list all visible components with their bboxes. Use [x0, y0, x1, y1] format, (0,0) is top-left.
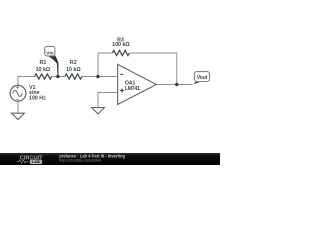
- flag Vout box: [194, 72, 209, 82]
- resistor R3: [112, 50, 129, 55]
- wire R2 to op-amp minus input: [82, 76, 118, 78]
- wire V1 top to R1: [18, 77, 35, 86]
- junction node output/feedback: [175, 83, 178, 86]
- svg-text:http:​//circuitlab.com/c62k8: http:​//circuitlab.com/c62k8: [59, 158, 101, 162]
- svg-text:10 kΩ: 10 kΩ: [36, 67, 51, 73]
- wire feedback top right: [129, 53, 176, 85]
- wire V1 bottom to ground: [17, 101, 19, 113]
- wire R1 to R2: [52, 76, 65, 78]
- svg-text:10 kΩ: 10 kΩ: [66, 67, 81, 73]
- flag Vout tail: [192, 81, 202, 85]
- svg-text:100 kΩ: 100 kΩ: [112, 42, 130, 48]
- footer logo resistor squiggle: [17, 160, 29, 163]
- svg-text:R2: R2: [70, 60, 77, 66]
- wire op-amp plus input to ground: [98, 93, 118, 108]
- svg-text:Vout: Vout: [197, 75, 208, 81]
- flag Vin tail: [46, 55, 59, 76]
- junction node Vin tap: [56, 75, 59, 78]
- footer bar: [0, 153, 220, 165]
- svg-text:LAB: LAB: [32, 159, 40, 164]
- ground under op-amp plus input: [92, 108, 105, 114]
- wire feedback left vertical: [98, 53, 112, 77]
- voltage source V1: [10, 85, 26, 101]
- resistor R2: [65, 74, 82, 79]
- svg-text:LM741: LM741: [125, 86, 140, 92]
- op-amp U1 triangle: [118, 64, 157, 104]
- ground under V1: [12, 113, 25, 119]
- flag Vin box: [45, 46, 55, 56]
- resistor R1: [35, 74, 52, 79]
- svg-text:Vin: Vin: [46, 50, 53, 55]
- op-amp minus sign: [120, 73, 123, 75]
- op-amp plus sign: [120, 88, 124, 92]
- svg-text:100 Hz: 100 Hz: [29, 96, 46, 102]
- footer logo LAB box: [30, 160, 42, 164]
- wire output: [156, 84, 192, 86]
- svg-text:R1: R1: [40, 60, 47, 66]
- junction node feedback/input: [96, 75, 99, 78]
